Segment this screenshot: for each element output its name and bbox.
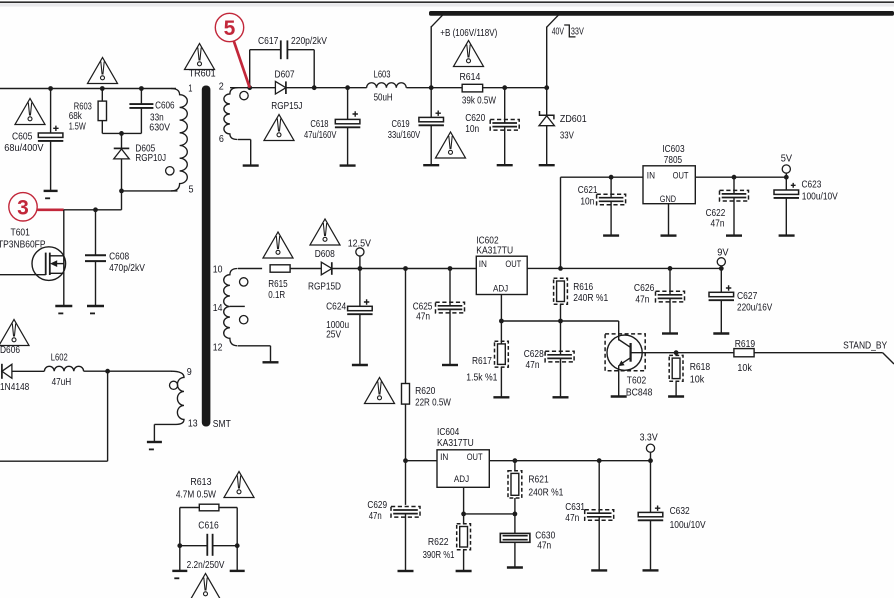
svg-text:IN: IN bbox=[647, 170, 655, 181]
svg-text:D606: D606 bbox=[0, 344, 20, 356]
IC602 pin ADJ label bbox=[493, 284, 508, 295]
warning symbol above D608 bbox=[310, 219, 340, 245]
phase dot secondary 2-6 bbox=[240, 91, 248, 99]
svg-text:47n: 47n bbox=[526, 359, 540, 371]
capacitor C629 bbox=[391, 507, 420, 518]
ground C626 bbox=[662, 332, 678, 334]
svg-text:C624: C624 bbox=[326, 300, 346, 312]
net STAND_BY label bbox=[843, 340, 887, 352]
junction C631 top bbox=[597, 458, 602, 463]
callout 3 pointer line bbox=[37, 208, 64, 211]
svg-text:47uH: 47uH bbox=[52, 376, 72, 388]
svg-text:47n: 47n bbox=[416, 311, 430, 323]
ground C629 bbox=[398, 570, 414, 572]
ground T602 emitter bbox=[611, 395, 627, 397]
svg-text:470p/2kV: 470p/2kV bbox=[109, 262, 145, 274]
wire 40V tap diagonal from bus bbox=[547, 15, 559, 27]
wire pin10 to R615 bbox=[238, 268, 262, 270]
terminal 5V bbox=[781, 153, 792, 174]
svg-text:47n: 47n bbox=[635, 293, 649, 305]
svg-text:240R %1: 240R %1 bbox=[573, 292, 608, 304]
phase dot primary winding bbox=[166, 167, 174, 175]
transformer TR601 label bbox=[189, 68, 216, 80]
svg-text:ADJ: ADJ bbox=[454, 474, 469, 485]
capacitor C630 label bbox=[535, 529, 555, 551]
capacitor C624 top wire bbox=[359, 269, 361, 307]
svg-text:630V: 630V bbox=[149, 122, 170, 134]
capacitor C622 bbox=[720, 190, 749, 201]
svg-text:C616: C616 bbox=[198, 520, 219, 532]
svg-text:100u/10V: 100u/10V bbox=[670, 519, 706, 531]
regulator IC603 box bbox=[643, 166, 695, 204]
wire pin6 to ground bbox=[238, 140, 251, 166]
wire R613 frame top right bbox=[219, 507, 237, 509]
svg-text:R617: R617 bbox=[472, 355, 492, 367]
svg-text:10k: 10k bbox=[737, 362, 752, 374]
wire C617 left leg bbox=[250, 50, 281, 88]
capacitor C631 bbox=[585, 510, 614, 521]
resistor R616 label bbox=[573, 281, 608, 304]
transformer TR601 SMT label bbox=[213, 418, 231, 430]
svg-text:R619: R619 bbox=[735, 338, 756, 350]
svg-text:12.5V: 12.5V bbox=[348, 238, 371, 250]
zener ZD601 label bbox=[560, 113, 587, 142]
pin 9 label bbox=[187, 366, 192, 378]
capacitor C627 bbox=[709, 285, 734, 300]
svg-text:3: 3 bbox=[17, 197, 29, 220]
junction 9V node bbox=[719, 266, 724, 271]
capacitor C619 top wire bbox=[430, 88, 432, 118]
capacitor C619 label bbox=[388, 118, 420, 141]
capacitor C618 label bbox=[304, 118, 336, 141]
wire L602 to pin9 bbox=[84, 370, 172, 372]
capacitor C621 label bbox=[578, 184, 598, 207]
IC604 pin IN label bbox=[440, 452, 448, 463]
capacitor C616 label bbox=[198, 520, 219, 532]
terminal 9V bbox=[717, 247, 728, 266]
capacitor C618 top wire bbox=[347, 88, 349, 120]
svg-text:10n: 10n bbox=[465, 123, 479, 135]
IC602 pin OUT label bbox=[505, 259, 521, 270]
svg-text:IN: IN bbox=[479, 259, 487, 270]
svg-text:33V: 33V bbox=[571, 26, 584, 38]
svg-text:IN: IN bbox=[440, 452, 448, 463]
svg-text:2: 2 bbox=[219, 81, 224, 93]
pin 6 label bbox=[219, 133, 224, 145]
capacitor C630 bbox=[500, 533, 530, 542]
junction 5V node bbox=[784, 175, 789, 180]
node 33V alt label bbox=[571, 26, 584, 38]
capacitor C618 wire to ground bbox=[347, 127, 349, 165]
junction C622 top bbox=[732, 175, 737, 180]
diode D605 wire to pin5 node bbox=[121, 159, 123, 210]
diode D607 label bbox=[271, 68, 302, 112]
junction R616 bottom node bbox=[558, 319, 563, 324]
svg-text:C623: C623 bbox=[802, 178, 822, 190]
svg-text:1N4148: 1N4148 bbox=[0, 381, 29, 393]
resistor R616 (dashed) bbox=[554, 278, 568, 304]
ground C608 bbox=[87, 306, 104, 314]
capacitor C606 top wire bbox=[140, 89, 142, 105]
svg-text:TP3NB60FP: TP3NB60FP bbox=[0, 239, 46, 251]
ground R613 left bbox=[172, 571, 187, 579]
capacitor C623 bbox=[774, 183, 799, 198]
capacitor C632 bbox=[638, 506, 663, 521]
wire IC603 out to 5V bbox=[695, 176, 786, 178]
pin 2 label bbox=[219, 81, 224, 93]
phase dot secondary 10-14 bbox=[240, 278, 248, 286]
svg-text:OUT: OUT bbox=[467, 452, 483, 463]
svg-text:1.5k %1: 1.5k %1 bbox=[466, 372, 497, 384]
page top border line bbox=[0, 2, 894, 6]
junction C606 top bbox=[139, 86, 144, 91]
callout circle 5 bbox=[215, 13, 243, 41]
svg-text:SMT: SMT bbox=[213, 418, 231, 430]
wire ADJ node horizontal bbox=[501, 320, 618, 322]
wire +B vertical drop bbox=[430, 26, 432, 88]
svg-text:50uH: 50uH bbox=[374, 92, 393, 104]
capacitor C617 bbox=[281, 40, 288, 59]
svg-text:C621: C621 bbox=[578, 184, 598, 196]
capacitor C626 top wire bbox=[669, 268, 671, 294]
warning symbol above D606 bbox=[0, 320, 29, 346]
pin 10 label bbox=[213, 263, 223, 275]
pin 14 label bbox=[213, 302, 223, 314]
svg-text:12: 12 bbox=[213, 342, 223, 354]
junction R620 top bbox=[403, 266, 408, 271]
ground C628 bbox=[553, 396, 569, 398]
phase dot winding 9-13 bbox=[170, 381, 178, 389]
capacitor C617 label bbox=[258, 35, 327, 47]
svg-text:5: 5 bbox=[189, 184, 194, 196]
svg-text:OUT: OUT bbox=[673, 170, 689, 181]
svg-text:GND: GND bbox=[660, 194, 676, 205]
svg-text:+B (106V/118V): +B (106V/118V) bbox=[440, 27, 497, 39]
svg-text:R613: R613 bbox=[190, 476, 211, 488]
svg-text:3.3V: 3.3V bbox=[640, 431, 658, 443]
wire R613 frame top left bbox=[180, 507, 200, 509]
wire 9V rail feed up to IC603 bbox=[561, 177, 644, 268]
wire D608 to IC602 IN bbox=[332, 268, 477, 270]
svg-text:0.1R: 0.1R bbox=[268, 289, 285, 301]
capacitor C629 label bbox=[367, 499, 387, 522]
ground C631 bbox=[591, 569, 607, 571]
wire feedback drop bbox=[0, 371, 108, 461]
svg-text:9V: 9V bbox=[717, 247, 728, 259]
svg-text:47n: 47n bbox=[369, 510, 382, 522]
wire R603/D605/C606 node bbox=[102, 132, 141, 134]
capacitor C631 top wire bbox=[598, 461, 600, 514]
capacitor C618 bbox=[335, 111, 360, 127]
svg-text:2.2n/250V: 2.2n/250V bbox=[187, 559, 225, 571]
svg-text:22R 0.5W: 22R 0.5W bbox=[415, 397, 451, 409]
terminal 12.5V bbox=[348, 238, 371, 256]
junction R621 bottom node bbox=[513, 512, 518, 517]
resistor R617 label bbox=[466, 355, 497, 384]
svg-text:1: 1 bbox=[188, 83, 192, 95]
transistor T601 MOSFET bbox=[32, 210, 66, 306]
ground R618 bbox=[668, 395, 684, 397]
regulator IC604 label bbox=[437, 426, 474, 449]
wire 5V stem bbox=[785, 173, 787, 190]
junction R618 top bbox=[674, 350, 679, 355]
wire IC604 ADJ pin bbox=[463, 487, 465, 524]
ground R622 bbox=[456, 570, 472, 572]
wire IC604 OUT 3.3V rail bbox=[489, 460, 650, 462]
wire mains rail to TR601 pin1 bbox=[0, 88, 176, 90]
ground pin6 bbox=[243, 164, 259, 166]
pin 13 label bbox=[188, 418, 198, 430]
svg-text:T601: T601 bbox=[11, 226, 31, 238]
warning symbol above R615 bbox=[263, 232, 293, 258]
resistor R603 bottom wire bbox=[101, 121, 103, 134]
warning symbol above R603 bbox=[88, 58, 118, 84]
capacitor C621 top wire bbox=[610, 177, 612, 198]
capacitor C621 bbox=[597, 194, 626, 205]
wire 12.5V stem bbox=[359, 256, 361, 269]
zener ZD601 wire to ground bbox=[546, 126, 548, 166]
junction IC604 IN node bbox=[403, 458, 408, 463]
svg-text:10n: 10n bbox=[580, 196, 594, 208]
diode D606 bbox=[2, 364, 12, 379]
junction D605 anode node bbox=[119, 131, 124, 136]
node +B label bbox=[440, 27, 497, 39]
svg-text:T602: T602 bbox=[627, 375, 647, 387]
svg-text:5: 5 bbox=[224, 17, 236, 40]
capacitor C632 label bbox=[670, 505, 706, 531]
capacitor C625 top wire bbox=[449, 269, 451, 306]
warning symbol above R614 bbox=[454, 41, 484, 67]
capacitor C608 top wire bbox=[95, 210, 97, 255]
ground C627 bbox=[713, 332, 729, 334]
capacitor C623 wire to ground bbox=[785, 198, 787, 236]
svg-text:RGP15J: RGP15J bbox=[271, 100, 302, 112]
capacitor C606 bottom wire bbox=[140, 108, 142, 133]
IC604 pin OUT label bbox=[467, 452, 483, 463]
svg-text:BC848: BC848 bbox=[626, 387, 653, 399]
IC602 pin IN label bbox=[479, 259, 487, 270]
ground C624 bbox=[352, 364, 368, 366]
capacitor C622 label bbox=[706, 207, 726, 230]
wire pin2 rail to D607 bbox=[230, 87, 275, 89]
junction IC604 ADJ node bbox=[461, 512, 466, 517]
junction +B node bbox=[429, 85, 434, 90]
resistor R619 label bbox=[735, 338, 756, 374]
svg-text:220u/16V: 220u/16V bbox=[737, 302, 772, 314]
svg-text:C618: C618 bbox=[310, 118, 328, 130]
transistor T601 label bbox=[0, 226, 46, 250]
capacitor C631 wire to ground bbox=[598, 517, 600, 571]
ground C622 bbox=[726, 234, 742, 236]
svg-text:D607: D607 bbox=[275, 68, 295, 80]
wire L603 to +B node bbox=[406, 87, 431, 89]
svg-text:L603: L603 bbox=[374, 68, 391, 80]
wire R620 from 12.5V rail bbox=[405, 269, 407, 384]
capacitor C605 label bbox=[4, 131, 43, 155]
callout 5 pointer line bbox=[234, 41, 250, 88]
capacitor C620 wire to ground bbox=[504, 127, 506, 166]
ground IC603 bbox=[661, 234, 677, 236]
svg-text:STAND_BY: STAND_BY bbox=[843, 340, 887, 352]
capacitor C608 label bbox=[109, 251, 145, 274]
junction C605 top bbox=[48, 86, 53, 91]
capacitor C608 wire to ground bbox=[95, 261, 97, 306]
svg-text:KA317TU: KA317TU bbox=[437, 437, 474, 449]
resistor R617 top wire bbox=[500, 321, 502, 344]
node 33V alt bracket bbox=[564, 25, 575, 37]
junction 3.3V node bbox=[648, 458, 653, 463]
wire D607 to L603 bbox=[286, 87, 367, 89]
svg-text:240R %1: 240R %1 bbox=[528, 487, 563, 499]
inductor L602 bbox=[44, 366, 83, 371]
capacitor C605 bbox=[38, 126, 63, 141]
capacitor C625 wire to ground bbox=[449, 309, 451, 365]
capacitor C624 bbox=[347, 299, 372, 314]
capacitor C625 bbox=[436, 302, 465, 313]
capacitor C626 label bbox=[634, 282, 655, 305]
ground C618 bbox=[340, 164, 356, 166]
resistor R603 label bbox=[69, 101, 92, 133]
capacitor C619 wire to ground bbox=[430, 125, 432, 165]
pin 1 label bbox=[188, 83, 192, 95]
capacitor C620 bbox=[490, 120, 519, 131]
phase dot secondary 14-12 bbox=[240, 316, 248, 324]
svg-text:47n: 47n bbox=[537, 539, 551, 551]
svg-text:10k: 10k bbox=[690, 373, 705, 385]
inductor L603 bbox=[367, 83, 407, 88]
ground C623 bbox=[779, 234, 795, 236]
capacitor C624 wire to ground bbox=[359, 314, 361, 365]
resistor R617 (dashed) bbox=[495, 341, 509, 367]
svg-text:C606: C606 bbox=[155, 99, 175, 111]
svg-text:47n: 47n bbox=[565, 512, 579, 524]
transformer TR601 secondary winding pins 2-6 bbox=[224, 88, 238, 140]
ground R617 bbox=[493, 396, 509, 398]
resistor R615 bbox=[270, 265, 290, 272]
svg-text:ADJ: ADJ bbox=[493, 284, 508, 295]
capacitor C628 label bbox=[524, 348, 544, 371]
resistor R613 label bbox=[176, 476, 216, 501]
wire R619 to STAND_BY bbox=[754, 353, 894, 364]
node 40V label bbox=[552, 26, 564, 38]
svg-text:OUT: OUT bbox=[505, 259, 521, 270]
regulator IC602 box bbox=[476, 256, 527, 294]
svg-text:RGP15D: RGP15D bbox=[308, 281, 341, 293]
resistor R622 wire to ground bbox=[463, 550, 465, 571]
wire R613 frame right vertical bbox=[236, 508, 238, 571]
warning symbol below C619 bbox=[436, 132, 466, 158]
power bus bar (+B rail) bbox=[429, 11, 894, 16]
svg-text:L602: L602 bbox=[51, 352, 68, 364]
callout circle 3 bbox=[9, 193, 37, 221]
ground C605 bbox=[44, 191, 58, 199]
transistor T602 (dashed outline) bbox=[605, 334, 645, 371]
capacitor C627 top wire bbox=[720, 266, 722, 292]
IC603 pin IN label bbox=[647, 170, 655, 181]
capacitor C608 bbox=[85, 255, 106, 261]
ground T601 source bbox=[55, 306, 72, 314]
wire R613 frame left vertical bbox=[179, 508, 181, 571]
transformer TR601 secondary winding pins 10-14-12 bbox=[224, 269, 238, 346]
junction C618 top bbox=[345, 85, 350, 90]
svg-text:ZD601: ZD601 bbox=[560, 113, 587, 125]
resistor R613 bbox=[199, 504, 219, 511]
resistor R621 label bbox=[528, 474, 563, 499]
IC604 pin ADJ label bbox=[454, 474, 469, 485]
junction R621 top bbox=[513, 458, 518, 463]
resistor R621 (dashed) bbox=[508, 471, 522, 498]
junction ADJ node bbox=[499, 319, 504, 324]
capacitor C626 wire to ground bbox=[669, 298, 671, 333]
transformer TR601 winding pins 9-13 bbox=[171, 371, 184, 424]
junction C617 left leg bbox=[247, 85, 252, 90]
junction C625 top bbox=[448, 266, 453, 271]
junction C626 top bbox=[668, 266, 673, 271]
svg-text:47u/160V: 47u/160V bbox=[304, 129, 336, 141]
ground C620 bbox=[497, 164, 513, 166]
capacitor C622 top wire bbox=[733, 177, 735, 194]
diode D607 bbox=[275, 81, 286, 94]
resistor R603 top wire bbox=[101, 89, 103, 102]
wire R616 stub bbox=[560, 304, 562, 321]
wire ADJ node to T602 collector bbox=[618, 321, 620, 341]
junction R616 top node bbox=[558, 266, 563, 271]
resistor R618 (dashed) bbox=[669, 355, 683, 381]
junction C624 top bbox=[358, 266, 363, 271]
svg-text:33u/160V: 33u/160V bbox=[388, 129, 420, 141]
diode D608 bbox=[321, 262, 332, 275]
regulator IC603 label bbox=[662, 143, 684, 166]
ground C632 bbox=[643, 569, 659, 571]
inductor L603 label bbox=[374, 68, 393, 103]
wire pin12 to ground bbox=[238, 346, 271, 363]
svg-text:C627: C627 bbox=[737, 290, 757, 302]
ground C625 bbox=[442, 364, 458, 366]
wire pin13 to ground bbox=[154, 424, 176, 442]
svg-text:100u/10V: 100u/10V bbox=[802, 190, 838, 202]
wire T601 gate bbox=[0, 274, 46, 276]
capacitor C621 wire to ground bbox=[610, 201, 612, 235]
warning symbol near R620 bbox=[365, 378, 395, 404]
resistor R622 label bbox=[423, 536, 455, 561]
svg-text:R621: R621 bbox=[528, 474, 548, 486]
svg-text:13: 13 bbox=[188, 418, 198, 430]
wire IC602 ADJ pin bbox=[500, 295, 502, 322]
capacitor C616 bbox=[207, 534, 212, 556]
wire +B node to R614 bbox=[431, 87, 462, 89]
svg-text:40V: 40V bbox=[552, 26, 564, 38]
capacitor C620 label bbox=[465, 112, 485, 135]
svg-text:R620: R620 bbox=[415, 385, 435, 397]
transformer TR601 core bbox=[202, 86, 211, 427]
svg-text:25V: 25V bbox=[326, 328, 341, 340]
svg-text:33V: 33V bbox=[560, 130, 574, 142]
ground ZD601 bbox=[539, 164, 555, 166]
svg-text:C605: C605 bbox=[12, 131, 33, 143]
svg-text:R622: R622 bbox=[428, 536, 449, 548]
svg-text:KA317TU: KA317TU bbox=[476, 245, 513, 257]
svg-text:47n: 47n bbox=[711, 217, 725, 229]
capacitor C622 wire to ground bbox=[733, 198, 735, 236]
svg-text:C619: C619 bbox=[392, 118, 410, 130]
junction 40V node bbox=[544, 85, 549, 90]
capacitor C619 bbox=[419, 111, 444, 126]
wire 40V vertical drop to ZD601 bbox=[546, 27, 548, 116]
svg-text:68u/400V: 68u/400V bbox=[4, 142, 43, 154]
warning symbol near R613 bbox=[224, 472, 254, 498]
capacitor C616 right wire bbox=[213, 545, 238, 547]
svg-text:14: 14 bbox=[213, 302, 223, 314]
